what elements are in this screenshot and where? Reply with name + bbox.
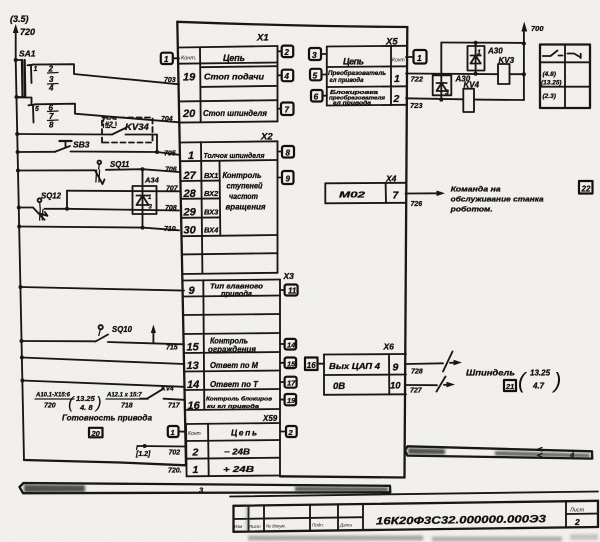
svg-text:720: 720: [44, 403, 56, 410]
svg-text:− 24В: − 24В: [224, 448, 250, 457]
svg-text:720: 720: [20, 27, 35, 37]
svg-text:(3.5): (3.5): [10, 14, 29, 24]
svg-text:ВХ2: ВХ2: [204, 189, 219, 198]
svg-text:1: 1: [34, 66, 38, 73]
svg-text:13: 13: [187, 360, 199, 372]
svg-text:10: 10: [390, 381, 401, 392]
svg-text:3: 3: [445, 90, 449, 97]
svg-text:2: 2: [288, 428, 294, 437]
svg-text:15: 15: [187, 342, 200, 354]
svg-text:обслуживание станка: обслуживание станка: [451, 195, 544, 204]
svg-text:20: 20: [91, 429, 101, 438]
svg-text:ВХ3: ВХ3: [204, 208, 219, 217]
svg-text:708: 708: [165, 205, 177, 212]
svg-text:30: 30: [184, 225, 197, 237]
svg-text:1: 1: [188, 150, 194, 162]
svg-text:X1: X1: [256, 33, 269, 44]
svg-text:17: 17: [287, 379, 296, 388]
svg-text:Конт: Конт: [188, 431, 201, 437]
svg-text:706: 706: [165, 167, 177, 174]
svg-text:Толчок шпинделя: Толчок шпинделя: [204, 151, 266, 160]
svg-text:14: 14: [287, 341, 296, 350]
svg-text:ограждения: ограждения: [208, 345, 256, 354]
svg-text:9: 9: [189, 285, 196, 297]
svg-text:722: 722: [411, 75, 424, 84]
svg-text:Готовность привода: Готовность привода: [62, 413, 152, 423]
svg-text:6: 6: [314, 92, 319, 102]
svg-text:717: 717: [168, 403, 181, 410]
svg-text:7: 7: [285, 106, 290, 115]
svg-text:4.7: 4.7: [532, 382, 545, 391]
svg-text:A12.1 x 15:7: A12.1 x 15:7: [106, 393, 142, 399]
svg-text:707: 707: [166, 186, 179, 193]
svg-text:705: 705: [164, 151, 176, 158]
svg-text:9: 9: [393, 362, 399, 374]
svg-text:Подп.: Подп.: [312, 523, 324, 528]
svg-text:5: 5: [313, 70, 318, 80]
svg-text:13.25: 13.25: [530, 369, 551, 378]
svg-text:19: 19: [183, 72, 196, 84]
svg-text:1: 1: [193, 464, 199, 476]
svg-text:4: 4: [48, 84, 54, 93]
svg-text:+ 24В: + 24В: [223, 465, 254, 474]
svg-text:KV34: KV34: [125, 122, 149, 133]
svg-text:703: 703: [164, 77, 176, 84]
svg-text:728: 728: [411, 369, 423, 376]
svg-text:11: 11: [288, 287, 297, 296]
svg-text:Контроль: Контроль: [223, 171, 262, 180]
svg-text:2: 2: [393, 93, 400, 105]
svg-text:22: 22: [581, 185, 591, 194]
svg-text:21: 21: [505, 382, 514, 391]
svg-text:ВХ1: ВХ1: [204, 171, 218, 180]
svg-text:Команда на: Команда на: [451, 185, 501, 194]
svg-text:1: 1: [477, 50, 481, 57]
svg-text:727: 727: [410, 388, 423, 395]
svg-text:15: 15: [287, 359, 296, 368]
svg-text:Тип главного: Тип главного: [210, 284, 264, 291]
svg-text:715: 715: [166, 345, 178, 352]
svg-text:720.: 720.: [168, 468, 182, 475]
svg-text:Лист: Лист: [248, 524, 261, 529]
svg-text:SA1: SA1: [19, 49, 36, 59]
svg-text:ки гл привода: ки гл привода: [207, 404, 260, 410]
svg-text:ВХ4: ВХ4: [204, 226, 219, 235]
svg-text:SB3: SB3: [73, 140, 90, 150]
svg-text:13.25: 13.25: [76, 394, 96, 403]
svg-text:723: 723: [410, 101, 423, 110]
svg-text:29: 29: [183, 207, 197, 219]
svg-text:Стоп подачи: Стоп подачи: [204, 72, 265, 82]
svg-text:1: 1: [164, 55, 169, 64]
svg-text:710: 710: [164, 226, 176, 233]
svg-text:): ): [94, 393, 102, 412]
svg-text:вращения: вращения: [226, 203, 266, 212]
svg-text:Преобразователь: Преобразователь: [328, 70, 386, 77]
svg-text:1: 1: [171, 428, 175, 437]
svg-text:роботом.: роботом.: [450, 205, 493, 214]
svg-text:8: 8: [286, 149, 291, 158]
svg-text:Дата: Дата: [339, 522, 352, 527]
svg-text:SQ10: SQ10: [112, 325, 133, 334]
svg-text:Контроль блокиров: Контроль блокиров: [206, 396, 273, 403]
svg-text:Вых ЦАП 4: Вых ЦАП 4: [329, 362, 381, 371]
svg-text:19: 19: [287, 396, 296, 405]
svg-text:(2.3): (2.3): [543, 93, 556, 100]
svg-text:27: 27: [183, 170, 197, 182]
svg-text:частот: частот: [229, 192, 258, 201]
svg-text:2: 2: [284, 48, 290, 57]
svg-text:SQ11: SQ11: [110, 160, 129, 169]
svg-text:X59: X59: [262, 414, 278, 423]
svg-text:Конт.: Конт.: [181, 56, 196, 62]
svg-text:гл привода: гл привода: [330, 77, 365, 84]
svg-text:16: 16: [307, 361, 316, 370]
svg-text:16К20Ф3С32.000000.000Э3: 16К20Ф3С32.000000.000Э3: [376, 513, 546, 527]
svg-text:Цепь: Цепь: [343, 57, 364, 67]
svg-text:Шпиндель: Шпиндель: [466, 368, 515, 378]
svg-text:гл привода: гл привода: [333, 101, 371, 107]
svg-text:Лист: Лист: [569, 508, 585, 514]
svg-text:5: 5: [35, 106, 39, 113]
svg-text:Ответ по Т: Ответ по Т: [210, 380, 259, 389]
svg-text:726: 726: [411, 201, 423, 208]
svg-text:[1.2]: [1.2]: [135, 451, 151, 458]
svg-text:М02: М02: [339, 190, 365, 200]
svg-text:1: 1: [394, 73, 400, 85]
svg-text:№ докум.: № докум.: [266, 523, 286, 528]
svg-text:14: 14: [187, 379, 199, 391]
svg-text:Изм: Изм: [234, 524, 242, 529]
svg-text:X6: X6: [383, 342, 395, 352]
svg-text:A34: A34: [144, 176, 160, 185]
svg-text:0В: 0В: [333, 381, 345, 392]
svg-text:8: 8: [49, 121, 54, 130]
svg-text:9: 9: [286, 175, 291, 184]
svg-text:704: 704: [161, 116, 173, 123]
svg-text:718: 718: [121, 403, 133, 410]
svg-text:(13.25): (13.25): [541, 80, 562, 87]
svg-text:2: 2: [574, 517, 580, 527]
svg-text:4. 8: 4. 8: [79, 403, 93, 412]
svg-text:Стоп шпинделя: Стоп шпинделя: [203, 108, 267, 118]
svg-text:(4.8): (4.8): [543, 71, 556, 78]
svg-text:привода: привода: [221, 290, 252, 298]
svg-text:A30: A30: [487, 47, 503, 56]
svg-text:2: 2: [192, 447, 199, 459]
svg-text:ступеней: ступеней: [227, 182, 263, 191]
svg-text:700: 700: [531, 24, 544, 33]
svg-text:28: 28: [183, 188, 197, 200]
svg-text:20: 20: [182, 108, 196, 120]
svg-text:Цепь: Цепь: [223, 53, 245, 63]
svg-text:4: 4: [284, 72, 290, 81]
svg-text:#2: #2: [105, 122, 113, 129]
svg-text:702: 702: [169, 450, 181, 457]
svg-text:16: 16: [188, 400, 201, 412]
svg-text:A10.1-X15:6: A10.1-X15:6: [35, 393, 71, 399]
svg-text:Конт: Конт: [392, 58, 405, 64]
svg-text:3: 3: [312, 50, 317, 60]
svg-text:SQ12: SQ12: [41, 192, 62, 201]
svg-text:Ответ по М: Ответ по М: [210, 361, 258, 370]
svg-text:X3: X3: [283, 271, 295, 281]
svg-text:1: 1: [417, 53, 422, 63]
